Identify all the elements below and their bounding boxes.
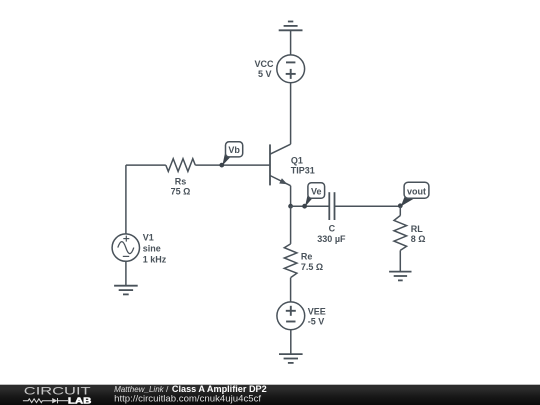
svg-text:V1: V1 — [143, 232, 154, 242]
wire left rail vertical — [125, 165, 127, 234]
svg-text:LAB: LAB — [68, 396, 92, 405]
svg-text:Vb: Vb — [228, 145, 240, 155]
svg-text:1 kHz: 1 kHz — [143, 254, 167, 264]
ground (below V1) — [114, 286, 138, 295]
svg-text:VCC: VCC — [254, 59, 274, 69]
footer bar — [0, 385, 540, 405]
wire Re to VEE — [290, 278, 292, 302]
wire left rail horizontal — [126, 164, 166, 166]
resistor Rs — [166, 159, 196, 172]
transistor Q1 — [270, 144, 291, 206]
svg-text:TIP31: TIP31 — [291, 166, 315, 176]
wire emitter node down to Re — [290, 206, 292, 244]
svg-text:330 µF: 330 µF — [317, 234, 346, 244]
svg-text:Q1: Q1 — [291, 156, 303, 166]
ground (below VEE) — [279, 354, 303, 363]
label V1 sine 1 kHz — [143, 232, 167, 264]
wire base — [222, 164, 270, 166]
resistor Re — [284, 244, 297, 278]
wire RL to ground — [399, 250, 401, 271]
capacitor C — [329, 192, 334, 220]
svg-text:Re: Re — [301, 252, 313, 262]
label Rs 75 ohm — [171, 176, 191, 196]
node Vb callout — [219, 142, 242, 168]
label Q1 TIP31 — [291, 156, 315, 176]
label Re 7.5 ohm — [301, 252, 323, 272]
voltage source VCC — [277, 55, 305, 83]
svg-text:http://circuitlab.com/cnuk4uju: http://circuitlab.com/cnuk4uju4c5cf — [114, 393, 262, 403]
voltage source VEE — [277, 302, 305, 330]
junction emitter node — [288, 204, 293, 209]
resistor RL — [394, 216, 407, 251]
wire emitter node to capacitor — [291, 205, 330, 207]
node vout callout — [398, 182, 429, 208]
svg-text:-5 V: -5 V — [308, 316, 325, 326]
svg-text:vout: vout — [407, 187, 426, 197]
wire vout down to RL — [399, 206, 401, 215]
source V1 sine — [112, 234, 139, 261]
ground (top, inverted) — [279, 22, 303, 31]
wire V1 to ground — [125, 261, 127, 285]
svg-text:RL: RL — [411, 224, 423, 234]
svg-text:Matthew_Link: Matthew_Link — [114, 384, 164, 394]
CircuitLab logo squiggle resistor+diode — [23, 398, 68, 403]
wire top-ground to VCC — [290, 30, 292, 55]
wire VCC to collector — [290, 83, 292, 145]
node Ve callout — [302, 183, 324, 209]
svg-text:Rs: Rs — [175, 176, 187, 186]
ground (below RL) — [389, 272, 411, 281]
svg-text:Class A Amplifier DP2: Class A Amplifier DP2 — [172, 384, 267, 394]
wire Rs to Vb node — [195, 164, 222, 166]
svg-text:sine: sine — [143, 243, 161, 253]
label RL 8 ohm — [411, 224, 426, 244]
svg-text:5 V: 5 V — [258, 69, 272, 79]
wire VEE to ground — [290, 330, 292, 354]
svg-text:8 Ω: 8 Ω — [411, 234, 426, 244]
svg-text:75 Ω: 75 Ω — [171, 187, 191, 197]
svg-text:VEE: VEE — [308, 306, 326, 316]
label VEE -5 V — [308, 306, 326, 326]
label VCC 5 V — [254, 59, 274, 79]
label C 330 uF — [317, 224, 346, 245]
svg-text:Ve: Ve — [311, 186, 322, 196]
wire capacitor to vout — [334, 205, 400, 207]
svg-text:7.5 Ω: 7.5 Ω — [301, 262, 323, 272]
svg-text:C: C — [329, 224, 336, 234]
